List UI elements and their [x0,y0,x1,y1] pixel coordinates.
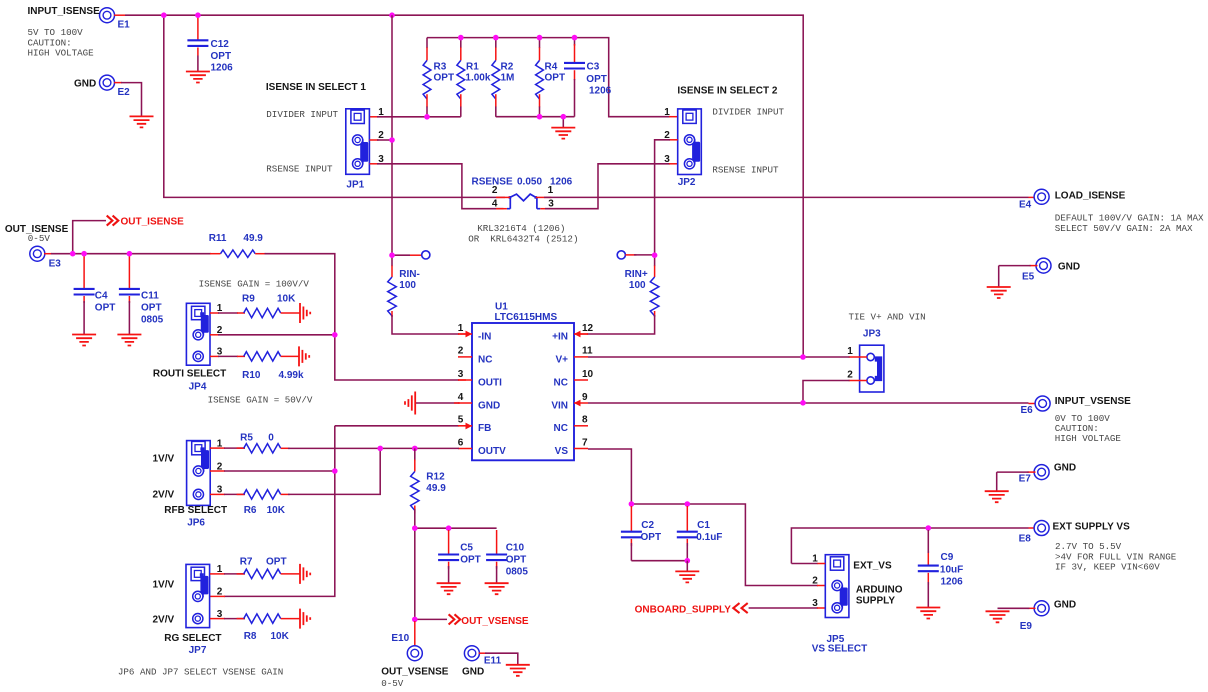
wire E3 rail [44,253,52,255]
svg-text:GND: GND [462,666,484,677]
svg-text:1206: 1206 [941,577,964,588]
pin 9 VIN of U1 [574,402,588,404]
svg-text:ISENSE IN SELECT 1: ISENSE IN SELECT 1 [266,82,366,93]
input arrows on U1 pins 1 5 9 12 [466,331,473,338]
pin 5 FB of U1 [458,425,472,427]
wire JP1 pin2 to net [370,139,379,141]
svg-text:2: 2 [217,587,223,598]
wire bank bottom right rail [496,116,575,118]
svg-text:ROUTI SELECT: ROUTI SELECT [153,368,226,379]
svg-text:ONBOARD_SUPPLY: ONBOARD_SUPPLY [635,604,732,615]
svg-text:OPT: OPT [266,556,287,567]
svg-text:INPUT_ISENSE: INPUT_ISENSE [28,6,101,17]
wire RSENSE pin3 to JP2 pin3 [545,164,670,209]
pin 10 NC of U1 [574,379,588,381]
svg-text:1206: 1206 [550,176,573,187]
svg-text:1V/V: 1V/V [153,580,175,591]
svg-text:8: 8 [582,415,588,426]
svg-text:49.9: 49.9 [243,233,263,244]
svg-text:FB: FB [478,423,491,434]
capacitor C3 [574,38,576,46]
capacitor C10 [496,530,498,555]
resistor R12 [414,448,416,460]
svg-text:100: 100 [399,280,416,291]
svg-text:JP7: JP7 [189,645,207,656]
wire top rail INPUT_ISENSE [114,14,125,16]
svg-text:0.050: 0.050 [517,176,542,187]
header JP6 RFB SELECT [187,441,211,506]
svg-text:R8: R8 [244,631,257,642]
svg-text:DEFAULT 100V/V GAIN: 1A MAX: DEFAULT 100V/V GAIN: 1A MAX [1055,213,1204,224]
svg-text:+IN: +IN [552,331,568,342]
svg-text:-IN: -IN [478,331,491,342]
ground at resistor bank [562,117,564,128]
pin 11 V+ of U1 [574,356,588,358]
wire JP1 pin3 to RSENSE pin4 [370,163,379,165]
svg-text:10: 10 [582,369,594,380]
svg-text:JP4: JP4 [189,382,207,393]
svg-text:VS: VS [555,446,569,457]
svg-text:1: 1 [548,185,554,196]
svg-text:1: 1 [378,107,384,118]
wire C2 C1 bottom rail [631,560,687,562]
svg-text:C1: C1 [697,520,710,531]
svg-text:OUT_VSENSE: OUT_VSENSE [461,616,529,627]
sideways ground at R7 [300,564,310,584]
wire FB net vertical [335,425,459,427]
resistor R7 [210,573,225,575]
net label OUT_ISENSE red arrow [73,221,106,254]
svg-text:DIVIDER INPUT: DIVIDER INPUT [266,109,338,120]
resistor RIN+ [654,255,656,266]
resistor R6 [210,493,225,495]
terminal E7 GND [1034,465,1049,480]
svg-text:2: 2 [492,185,498,196]
svg-text:HIGH VOLTAGE: HIGH VOLTAGE [28,48,95,59]
svg-text:10K: 10K [277,293,296,304]
pin 12 +IN of U1 [574,333,588,335]
svg-text:E5: E5 [1022,272,1035,283]
wire VIN net to E6 [588,402,1029,404]
svg-text:JP2: JP2 [678,177,696,188]
svg-text:ISENSE GAIN = 100V/V: ISENSE GAIN = 100V/V [199,278,310,289]
svg-text:OPT: OPT [460,554,481,565]
svg-text:R12: R12 [426,471,445,482]
ground at E11 [506,665,530,676]
svg-text:VIN: VIN [551,400,568,411]
terminal E11 GND [464,646,479,661]
svg-text:U1: U1 [495,301,508,312]
wire JP3 pin2 to VIN [849,380,867,382]
svg-text:OPT: OPT [545,73,566,84]
svg-text:SELECT 50V/V GAIN: 2A MAX: SELECT 50V/V GAIN: 2A MAX [1055,223,1193,234]
wire C5 C10 rail [415,527,497,529]
svg-text:OPT: OPT [434,73,455,84]
terminal E3 OUT_ISENSE [30,246,45,261]
svg-text:JP1: JP1 [346,180,364,191]
ground at E5 [987,287,1011,298]
svg-text:RIN+: RIN+ [625,269,648,280]
svg-text:NC: NC [478,354,492,365]
svg-text:0805: 0805 [506,566,529,577]
svg-text:C4: C4 [95,290,108,301]
ground under E2 [130,116,154,127]
svg-text:C2: C2 [641,520,654,531]
wire vertical INPUT_ISENSE x392 [391,15,393,255]
svg-text:V+: V+ [555,354,568,365]
test point RIN+ circle [617,251,625,259]
svg-text:E11: E11 [484,656,502,667]
svg-text:OR KRL6432T4 (2512): OR KRL6432T4 (2512) [468,234,578,245]
pin 8 NC of U1 [574,425,588,427]
svg-text:OPT: OPT [506,554,527,565]
svg-text:GND: GND [1054,463,1076,474]
svg-text:R7: R7 [240,556,253,567]
svg-text:KRL3216T4 (1206): KRL3216T4 (1206) [477,223,565,234]
svg-text:RSENSE INPUT: RSENSE INPUT [266,164,333,175]
svg-text:ARDUINO: ARDUINO [856,584,903,595]
net label OUT_VSENSE red arrow [415,618,447,620]
header JP5 VS SELECT [825,555,849,618]
resistor R2 [495,38,497,49]
resistor R8 [210,618,225,620]
terminal E9 GND [1034,601,1049,616]
sideways ground at R10 [299,346,309,366]
svg-text:GND: GND [1058,261,1080,272]
svg-text:12: 12 [582,323,594,334]
capacitor C12 [197,17,199,40]
capacitor C1 [686,506,688,532]
svg-text:SUPPLY: SUPPLY [856,595,895,606]
svg-text:R2: R2 [501,62,514,73]
svg-text:GND: GND [1054,599,1076,610]
wire JP6 pin2 to FB net [210,470,225,472]
resistor R11 [221,250,256,257]
svg-text:OUTI: OUTI [478,377,502,388]
svg-text:C3: C3 [587,61,600,72]
svg-text:R3: R3 [434,62,447,73]
svg-text:JP3: JP3 [863,328,881,339]
svg-text:1206: 1206 [211,63,234,74]
resistor R9 [210,312,219,314]
svg-text:E3: E3 [49,258,62,269]
pin 6 OUTV of U1 [458,448,472,450]
svg-text:0: 0 [268,433,274,444]
svg-text:4: 4 [458,392,464,403]
sideways ground at R8 [300,609,310,629]
svg-text:OPT: OPT [586,74,607,85]
ground under C10 [485,583,509,594]
svg-text:OUT_ISENSE: OUT_ISENSE [121,217,185,228]
svg-text:NC: NC [554,377,568,388]
svg-text:E7: E7 [1019,473,1032,484]
svg-text:3: 3 [458,369,464,380]
svg-text:10K: 10K [271,631,290,642]
svg-text:LTC6115HMS: LTC6115HMS [495,312,558,323]
svg-text:HIGH VOLTAGE: HIGH VOLTAGE [1055,433,1122,444]
resistor R5 [210,447,225,449]
svg-text:10K: 10K [267,505,286,516]
svg-text:2: 2 [812,576,818,587]
svg-text:49.9: 49.9 [426,483,446,494]
svg-text:E6: E6 [1021,405,1034,416]
wire JP4 pin2 to OUTI net [210,334,219,336]
pin 2 NC of U1 [458,356,472,358]
wire RSENSE pin1 to LOAD_ISENSE [544,196,1029,198]
svg-text:3: 3 [812,598,818,609]
svg-text:LOAD_ISENSE: LOAD_ISENSE [1055,190,1126,201]
svg-text:1206: 1206 [589,86,612,97]
svg-text:7: 7 [582,437,588,448]
wire JP3 pin1 to V+ [849,356,867,358]
pin 1 -IN of U1 [458,333,472,335]
pin 3 OUTI of U1 [458,379,472,381]
svg-text:C11: C11 [141,290,159,301]
svg-text:IF 3V, KEEP VIN<60V: IF 3V, KEEP VIN<60V [1055,562,1160,573]
svg-text:0-5V: 0-5V [381,678,404,689]
svg-text:2: 2 [458,346,464,357]
svg-text:OUTV: OUTV [478,446,506,457]
svg-text:RG SELECT: RG SELECT [164,633,221,644]
svg-text:1.00k: 1.00k [465,73,490,84]
svg-text:OPT: OPT [141,302,162,313]
wire JP5 pin1 to EXT SUPPLY VS [817,563,825,565]
svg-text:6: 6 [458,437,464,448]
terminal E2 GND [100,75,115,90]
op-amp U1 LTC6115HMS body [472,323,574,460]
svg-text:INPUT_VSENSE: INPUT_VSENSE [1055,396,1131,407]
svg-text:R1: R1 [466,62,479,73]
header JP2 ISENSE IN SELECT 2 [678,109,702,175]
svg-text:JP6 AND JP7 SELECT VSENSE GAIN: JP6 AND JP7 SELECT VSENSE GAIN [118,667,283,678]
ground under C1 C2 [686,561,688,572]
capacitor C5 [448,530,450,555]
header JP3 2-pin [860,345,884,392]
svg-text:E10: E10 [391,633,409,644]
svg-text:R4: R4 [545,62,558,73]
svg-text:E4: E4 [1019,200,1032,211]
svg-text:2V/V: 2V/V [153,614,175,625]
svg-text:R10: R10 [242,370,261,381]
svg-text:1: 1 [847,346,853,357]
test point RIN- circle [392,254,410,256]
svg-text:E1: E1 [118,20,131,31]
resistor R1 [460,38,462,49]
terminal E1 INPUT_ISENSE [100,8,115,23]
terminal E5 GND [1036,258,1051,273]
ground at E9 [986,611,1010,622]
resistor R4 [539,38,541,49]
wire resistor bank top rail [427,38,670,117]
pins RSENSE kelvin hooks [507,197,540,208]
svg-text:GND: GND [478,400,500,411]
capacitor C11 [128,256,130,289]
junction dots E3 rail [70,251,76,257]
pin 7 VS of U1 [574,448,588,450]
svg-text:0805: 0805 [141,314,164,325]
junction dots OUTV net [377,446,383,452]
svg-text:ISENSE IN SELECT 2: ISENSE IN SELECT 2 [677,86,777,97]
svg-text:VS SELECT: VS SELECT [812,643,868,654]
junction dots resistor bank [458,35,464,41]
ground under C4 [72,335,96,346]
svg-text:R5: R5 [240,433,253,444]
capacitor C4 [83,256,85,289]
svg-text:10uF: 10uF [940,565,963,576]
header JP4 ROUTI SELECT [186,303,210,365]
terminal E10 OUT_VSENSE [414,621,416,646]
wire VS net from U1 pin7 [588,449,818,586]
resistor RIN- [391,255,393,266]
header JP7 RG SELECT [186,564,210,627]
svg-text:E2: E2 [118,87,131,98]
wire left drop to RSENSE row [164,15,505,197]
svg-text:3: 3 [664,154,670,165]
svg-text:2: 2 [847,370,853,381]
header JP1 ISENSE IN SELECT 1 [346,109,370,175]
svg-text:1M: 1M [501,73,515,84]
wire JP2 pin2 down to RIN+ [669,139,678,141]
ground under C9 [916,608,940,619]
svg-text:DIVIDER INPUT: DIVIDER INPUT [712,107,784,118]
wire E2 to ground [114,82,122,84]
sideways ground at U1 pin4 GND [405,392,415,415]
terminal E4 LOAD_ISENSE [1034,189,1049,204]
junction dots top rail [161,12,167,18]
svg-text:100: 100 [629,280,646,291]
svg-text:R9: R9 [242,293,255,304]
svg-text:E8: E8 [1019,533,1032,544]
resistor R3 [426,38,428,49]
terminal E8 EXT SUPPLY VS [1034,521,1049,536]
sideways ground at R9 [300,303,310,323]
svg-text:1V/V: 1V/V [153,453,175,464]
svg-text:EXT_VS: EXT_VS [853,560,892,571]
svg-text:1: 1 [664,107,670,118]
svg-text:11: 11 [582,346,593,357]
svg-text:0-5V: 0-5V [28,233,51,244]
capacitor C9 [927,551,929,566]
svg-text:4.99k: 4.99k [279,370,304,381]
svg-text:NC: NC [554,423,568,434]
svg-text:RIN-: RIN- [399,269,420,280]
svg-text:C10: C10 [506,542,525,553]
svg-text:TIE V+ AND VIN: TIE V+ AND VIN [849,311,926,322]
svg-text:JP6: JP6 [187,518,205,529]
svg-text:R11: R11 [209,233,227,244]
ground at E7 [985,491,1009,502]
svg-text:C9: C9 [941,552,954,563]
svg-text:E9: E9 [1020,621,1033,632]
svg-text:0.1uF: 0.1uF [696,532,722,543]
resistor R10 [210,355,219,357]
capacitor C2 [630,506,632,532]
ground under C5 [437,583,461,594]
pin 4 GND of U1 [458,402,472,404]
svg-text:RFB SELECT: RFB SELECT [164,505,227,516]
ground under C11 [117,335,141,346]
svg-text:R6: R6 [244,505,257,516]
svg-text:5: 5 [458,415,464,426]
svg-text:1: 1 [458,323,464,334]
svg-text:2V/V: 2V/V [153,489,175,500]
svg-text:GND: GND [74,78,96,89]
ground under C12 [186,72,210,83]
svg-text:EXT SUPPLY VS: EXT SUPPLY VS [1053,522,1131,533]
svg-text:OPT: OPT [95,302,116,313]
svg-text:ISENSE GAIN = 50V/V: ISENSE GAIN = 50V/V [208,394,313,405]
svg-text:C5: C5 [460,542,473,553]
svg-text:RSENSE INPUT: RSENSE INPUT [712,164,779,175]
terminal E6 INPUT_VSENSE [1035,396,1050,411]
svg-text:OPT: OPT [211,51,232,62]
svg-text:OPT: OPT [641,532,662,543]
svg-text:OUT_VSENSE: OUT_VSENSE [381,666,449,677]
svg-text:9: 9 [582,392,588,403]
svg-text:C12: C12 [211,39,230,50]
wire bank bottom left rail to JP1 pin1 [370,116,379,118]
